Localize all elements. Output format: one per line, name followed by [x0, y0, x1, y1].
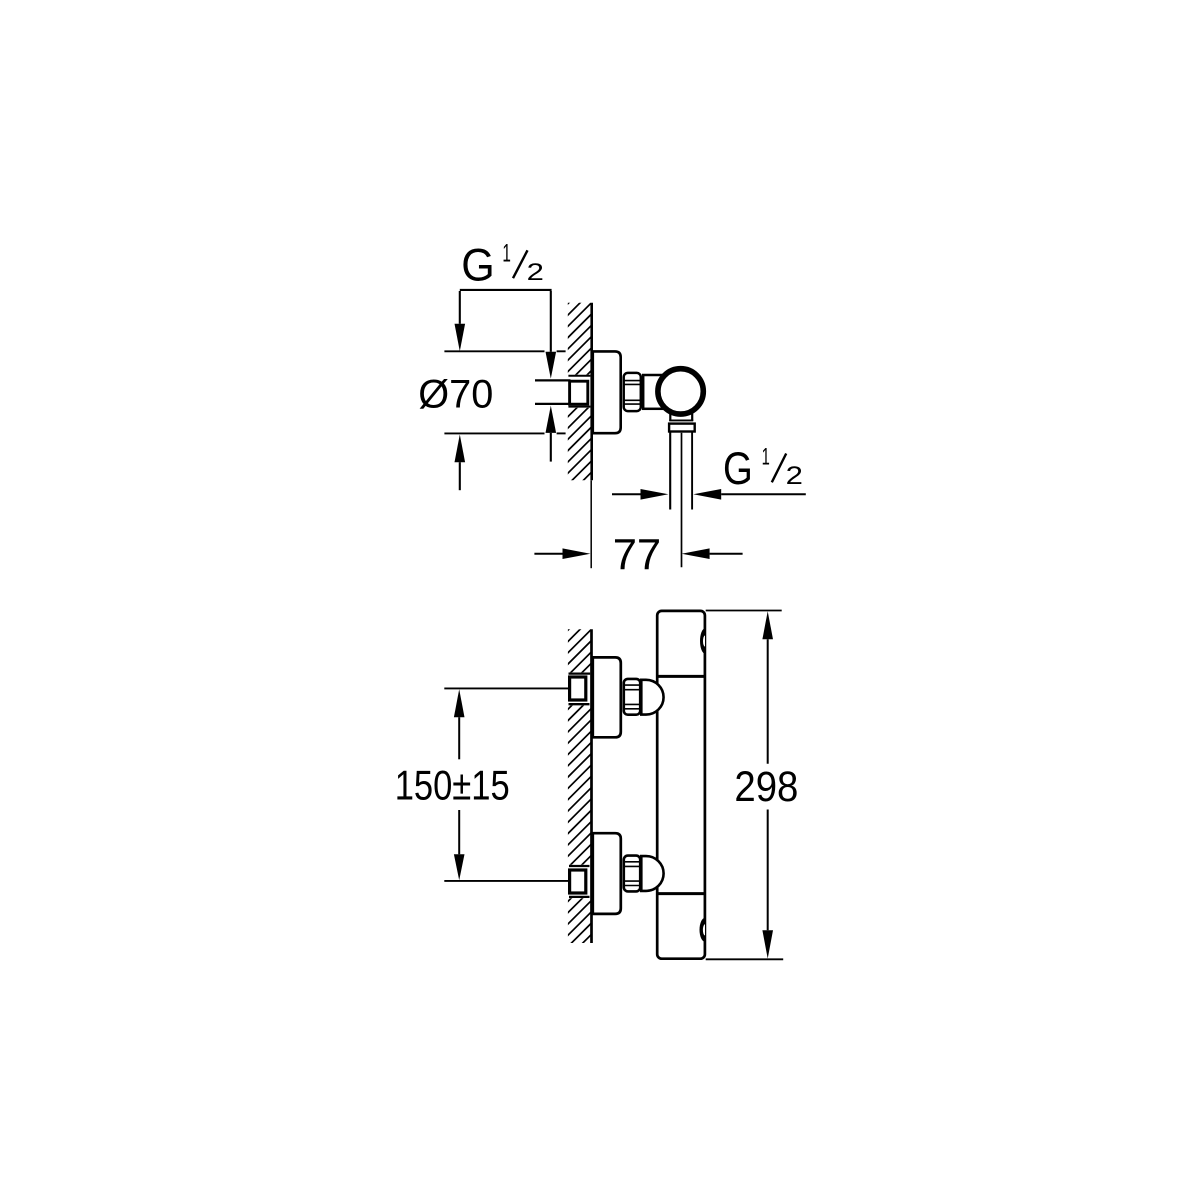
svg-text:298: 298: [734, 763, 798, 810]
svg-text:G: G: [723, 443, 753, 494]
svg-text:1: 1: [762, 444, 770, 471]
svg-text:2: 2: [786, 462, 803, 490]
svg-text:G: G: [461, 239, 495, 290]
svg-text:150±15: 150±15: [395, 763, 510, 809]
svg-text:77: 77: [613, 532, 662, 580]
svg-text:2: 2: [527, 259, 544, 286]
svg-text:1: 1: [502, 239, 511, 267]
svg-text:Ø70: Ø70: [418, 372, 493, 416]
